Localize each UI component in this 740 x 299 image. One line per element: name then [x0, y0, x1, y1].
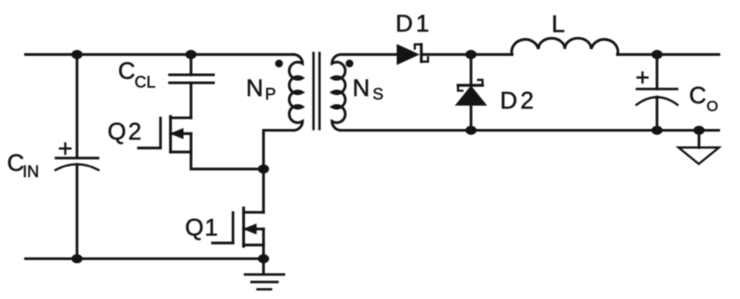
- node D2 anode junction: [465, 126, 476, 135]
- label C_O: [689, 83, 718, 116]
- svg-text:C: C: [689, 83, 706, 110]
- wire Q1 source to ground rail: [262, 229, 265, 259]
- transistor Q2: [139, 117, 192, 153]
- ground chassis symbol (output): [679, 130, 720, 164]
- wire inductor to output: [618, 53, 719, 56]
- diode D1 (schottky): [398, 44, 429, 63]
- wire D1 cathode to inductor: [421, 53, 512, 56]
- svg-text:O: O: [707, 98, 719, 115]
- wire bottom rail: [26, 257, 264, 260]
- label L: [552, 11, 565, 38]
- node bottom C_IN junction: [71, 254, 82, 263]
- svg-text:S: S: [373, 86, 384, 104]
- wire C_IN bottom branch: [76, 165, 79, 259]
- node output ground junction: [693, 126, 704, 135]
- capacitor C_IN: [56, 143, 99, 170]
- svg-text:N: N: [353, 75, 370, 102]
- label C_CL: [118, 58, 156, 92]
- wire Q2 source to switch node: [191, 134, 264, 169]
- label Q2: [108, 119, 144, 146]
- ground earth symbol: [245, 259, 284, 290]
- svg-text:L: L: [552, 11, 565, 38]
- transformer secondary winding N_S: [332, 55, 398, 131]
- wire primary bottom lead: [264, 130, 294, 169]
- svg-text:D1: D1: [396, 11, 433, 38]
- label C_IN: [7, 150, 39, 181]
- wire C_IN top branch: [76, 55, 79, 158]
- svg-text:CL: CL: [135, 74, 156, 92]
- svg-text:D2: D2: [500, 88, 537, 115]
- label D1: [396, 11, 433, 38]
- node input top junction (C_IN): [71, 50, 82, 59]
- wire D2 cathode branch: [470, 55, 473, 86]
- diode D2 (schottky): [457, 80, 486, 105]
- wire bottom output rail: [341, 129, 719, 132]
- node secondary polarity dot: [346, 60, 354, 68]
- transformer primary winding N_P: [289, 55, 302, 131]
- node clamp top junction (C_CL): [185, 50, 196, 59]
- wire D2 anode branch: [470, 105, 473, 131]
- node bottom ground junction: [258, 254, 269, 263]
- label Q1: [185, 215, 219, 242]
- wire C_O top branch: [656, 55, 659, 90]
- svg-text:C: C: [118, 58, 135, 85]
- transistor Q1: [213, 208, 264, 246]
- svg-text:Q2: Q2: [108, 119, 144, 146]
- svg-text:N: N: [246, 75, 263, 102]
- label D2: [500, 88, 537, 115]
- svg-text:P: P: [265, 86, 276, 104]
- capacitor C_O: [637, 73, 678, 105]
- transformer core: [314, 53, 320, 129]
- node D1/D2/L junction: [465, 50, 476, 59]
- wire switch node to Q1 drain: [262, 169, 265, 212]
- wire C_CL to Q2 drain: [190, 83, 193, 118]
- wire C_O bottom branch: [656, 97, 659, 130]
- node switch junction: [258, 164, 269, 173]
- wire C_CL top branch: [190, 55, 193, 75]
- label N_S: [353, 75, 384, 104]
- label N_P: [246, 75, 276, 104]
- svg-text:IN: IN: [23, 163, 40, 181]
- inductor L: [512, 38, 618, 54]
- wire top rail left section: [26, 53, 294, 56]
- node output top junction (C_O): [651, 50, 662, 59]
- node C_O bottom junction: [651, 126, 662, 135]
- node primary polarity dot: [275, 60, 283, 68]
- svg-text:Q1: Q1: [185, 215, 219, 242]
- capacitor C_CL: [170, 75, 214, 83]
